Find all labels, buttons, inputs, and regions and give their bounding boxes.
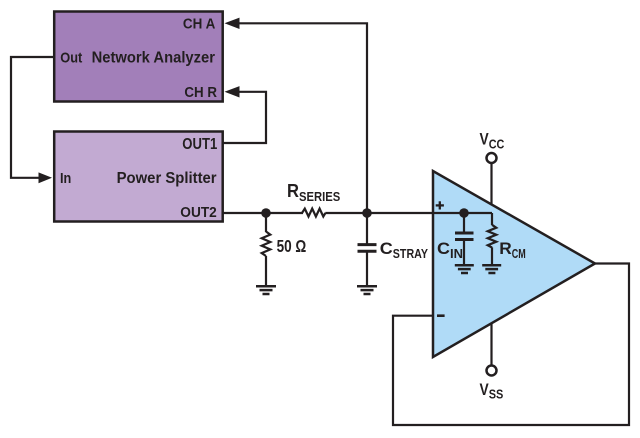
- wire node B to CH A (top feedback sense wire): [239, 23, 368, 213]
- resistor 50ohm: [262, 232, 271, 257]
- wire 50ohm to ground: [265, 256, 267, 286]
- wire RCM branch: [491, 213, 493, 225]
- wire OUT2 to R_SERIES left: [223, 212, 303, 214]
- arrowhead into CH A: [225, 18, 240, 29]
- svg-text:Power Splitter: Power Splitter: [117, 170, 217, 187]
- ground under CIN: [455, 265, 474, 273]
- node A (junction at 50ohm): [261, 208, 271, 218]
- svg-text:Network Analyzer: Network Analyzer: [92, 49, 215, 66]
- ground under RCM: [482, 265, 501, 273]
- terminal VCC: [487, 153, 497, 163]
- svg-text:Out: Out: [60, 49, 82, 66]
- wire CSTRAY branch: [366, 213, 368, 244]
- arrowhead into CH R: [225, 86, 240, 97]
- svg-text:In: In: [60, 170, 71, 187]
- svg-text:OUT1: OUT1: [182, 136, 217, 153]
- svg-text:OUT2: OUT2: [180, 205, 217, 221]
- op-amp U1: [433, 171, 595, 357]
- svg-text:50 Ω: 50 Ω: [277, 236, 307, 256]
- wire Out to In (network analyzer Out -> power splitter In): [11, 57, 53, 178]
- ground under 50ohm: [256, 286, 276, 294]
- wire VSS supply: [490, 323, 492, 365]
- svg-text:CH R: CH R: [184, 85, 217, 101]
- label - input: [437, 314, 445, 317]
- ground under CSTRAY: [357, 286, 377, 294]
- wire CSTRAY to ground: [366, 251, 368, 286]
- svg-text:CH A: CH A: [183, 17, 215, 33]
- resistor RSERIES: [302, 209, 325, 217]
- network analyzer box: [54, 12, 223, 102]
- resistor RCM: [488, 225, 497, 248]
- capacitor CSTRAY: [358, 245, 377, 252]
- wire R_SERIES right to op-amp + input node: [325, 212, 492, 214]
- wire VCC supply: [490, 164, 492, 205]
- wire feedback loop (output to inverting input): [393, 264, 629, 426]
- wire RCM to ground: [491, 247, 493, 264]
- node B (junction at CSTRAY): [362, 208, 372, 218]
- wire 50ohm branch: [265, 213, 267, 232]
- capacitor CIN: [455, 233, 474, 240]
- node C (junction at CIN inside op-amp): [459, 208, 469, 218]
- terminal VSS: [487, 366, 497, 376]
- label + input: [436, 201, 444, 209]
- arrowhead into In: [39, 172, 53, 183]
- wire CIN branch: [463, 213, 465, 232]
- wire OUT1 to CH R: [223, 92, 266, 143]
- wire CIN to ground: [463, 240, 465, 265]
- power splitter box: [54, 132, 223, 222]
